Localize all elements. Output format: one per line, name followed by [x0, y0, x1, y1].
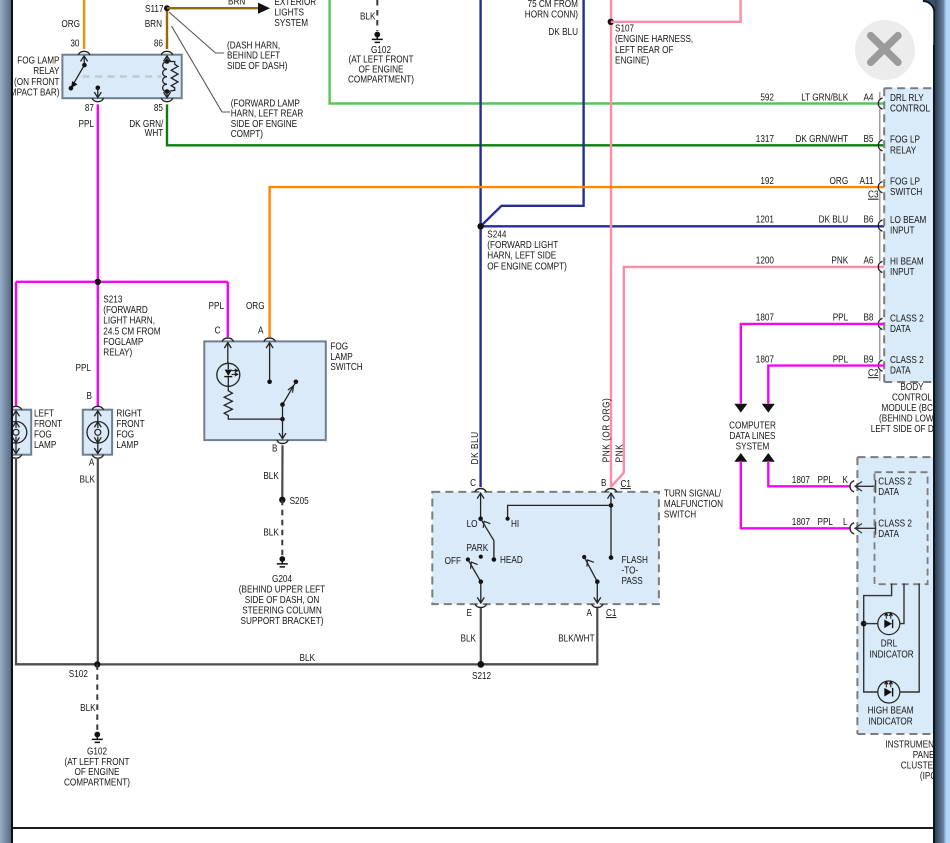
wire DRL indicator return — [900, 584, 904, 624]
pin 87 label — [85, 102, 94, 113]
svg-text:LEFT: LEFT — [34, 408, 54, 419]
wire BRN from S117 to relay pin 86 — [166, 8, 168, 49]
pin B label (right lamp) — [87, 390, 92, 401]
headlamp switch LO contact from pin C — [477, 493, 484, 521]
HI contact branch — [506, 505, 612, 520]
svg-text:DATA: DATA — [878, 528, 899, 539]
node DRL RLY CONTROL — [890, 92, 930, 114]
svg-text:30: 30 — [70, 38, 79, 49]
label FLASH -TO- PASS — [622, 554, 648, 586]
svg-text:FOG: FOG — [34, 429, 52, 440]
svg-text:LO: LO — [467, 518, 478, 529]
svg-text:1201: 1201 — [756, 214, 774, 225]
svg-text:CLASS 2: CLASS 2 — [878, 518, 912, 529]
svg-text:MALFUNCTION: MALFUNCTION — [664, 498, 723, 509]
node HI BEAM INPUT — [890, 256, 924, 278]
svg-text:LT GRN/BLK: LT GRN/BLK — [801, 92, 848, 103]
svg-text:BLK: BLK — [461, 633, 476, 644]
wire BLK pin E to S212 — [480, 608, 482, 664]
label DK BLU — [548, 26, 578, 37]
svg-text:B6: B6 — [863, 214, 873, 225]
label (FORWARD LAMP HARN, LEFT REAR SIDE OF ENGINE COMPT) — [231, 98, 304, 140]
svg-text:S213: S213 — [103, 294, 122, 305]
label OFF — [445, 555, 462, 566]
svg-text:1807: 1807 — [756, 312, 774, 323]
svg-text:S205: S205 — [290, 495, 309, 506]
svg-text:OFF: OFF — [445, 555, 462, 566]
svg-text:ORG: ORG — [830, 175, 849, 186]
relay coil between pins 86 and 85 — [163, 56, 178, 98]
svg-text:SUPPORT BRACKET): SUPPORT BRACKET) — [241, 615, 324, 626]
svg-text:DATA: DATA — [878, 486, 899, 497]
headlamp switch blade OFF to pin E — [468, 560, 484, 604]
splice S107 — [608, 19, 614, 25]
svg-text:RIGHT: RIGHT — [116, 408, 142, 419]
svg-text:PNK: PNK — [614, 444, 625, 463]
svg-text:B: B — [601, 477, 606, 488]
BCM pin B6 arc — [878, 220, 882, 231]
label BLK/WHT — [558, 633, 595, 644]
pin C label — [470, 477, 476, 488]
svg-text:COMPARTMENT): COMPARTMENT) — [348, 74, 414, 85]
wire DK BLU vertical 1 (to S244 and turn signal switch) — [479, 0, 481, 487]
fog lamp switch blade — [279, 380, 298, 439]
contact OFF — [466, 557, 470, 561]
label PPL — [79, 118, 94, 129]
label BLK — [360, 11, 375, 22]
svg-text:(FORWARD: (FORWARD — [103, 304, 148, 315]
body control module BCM box — [884, 88, 950, 382]
svg-text:HORN CONN): HORN CONN) — [525, 9, 578, 20]
svg-text:RELAY: RELAY — [33, 65, 59, 76]
label 592 LT GRN/BLK A4 — [760, 92, 873, 103]
wire PPL class 2 data to IPC L — [734, 453, 849, 528]
BCM pin A4 arc — [878, 98, 882, 109]
label BLK (ground bus) — [299, 652, 314, 663]
node FOG LP SWITCH — [890, 176, 922, 198]
label 192 ORG A11 — [760, 175, 873, 186]
ground G204 — [277, 556, 288, 567]
svg-text:LIGHTS: LIGHTS — [274, 7, 304, 18]
label LO — [467, 518, 478, 529]
svg-text:PASS: PASS — [622, 575, 643, 586]
label BLK — [461, 633, 476, 644]
wire BLK switch to S205 — [281, 445, 283, 500]
turn signal / malfunction switch S2 box — [432, 489, 659, 608]
svg-text:SIDE OF DASH, ON: SIDE OF DASH, ON — [245, 594, 320, 605]
svg-text:(DASH HARN,: (DASH HARN, — [227, 40, 280, 51]
splice S102 — [69, 661, 101, 679]
svg-text:INDICATOR: INDICATOR — [868, 716, 913, 727]
svg-text:FOG LP: FOG LP — [890, 176, 920, 187]
left front fog lamp E1 — [1, 406, 31, 458]
label BLK — [263, 470, 278, 481]
label PNK rotated — [614, 444, 625, 463]
label DK GRN/ WHT — [129, 118, 164, 138]
fog lamp switch S1 box — [204, 338, 325, 444]
connector arc pin 87 — [92, 98, 103, 102]
svg-text:SIDE OF DASH): SIDE OF DASH) — [227, 60, 287, 71]
svg-text:SYSTEM: SYSTEM — [274, 17, 308, 28]
svg-text:PPL: PPL — [818, 474, 833, 485]
svg-text:HEAD: HEAD — [500, 554, 523, 565]
node CLASS 2 DATA — [890, 313, 924, 335]
svg-text:CONTROL: CONTROL — [892, 392, 932, 403]
label G102 (AT LEFT FRONT OF ENGINE COMPARTMENT) — [64, 746, 130, 788]
wire BRN to exterior lights system — [167, 0, 270, 14]
svg-text:FRONT: FRONT — [116, 418, 145, 429]
svg-text:BLK/WHT: BLK/WHT — [558, 633, 595, 644]
fog lamp switch LED indicator — [217, 342, 240, 386]
BCM connector bracket line — [879, 92, 881, 381]
svg-text:BLK: BLK — [80, 702, 95, 713]
splice S213 — [95, 279, 101, 285]
svg-text:PPL: PPL — [833, 354, 848, 365]
wire IPC internal to DRL indicator — [861, 584, 892, 693]
svg-text:PPL: PPL — [76, 362, 91, 373]
label 1807 PPL K — [792, 474, 848, 485]
connector arc pin 86 — [161, 51, 172, 55]
svg-text:B9: B9 — [863, 354, 873, 365]
svg-text:(FORWARD LAMP: (FORWARD LAMP — [231, 98, 300, 109]
svg-text:BEHIND LEFT: BEHIND LEFT — [227, 50, 281, 61]
wire PPL splice bus at S213 — [16, 281, 228, 283]
label CLASS 2 DATA (K) — [878, 476, 912, 498]
svg-text:FOG: FOG — [116, 429, 134, 440]
svg-text:INPUT: INPUT — [890, 225, 915, 236]
relay mechanical link (dashed) — [83, 75, 162, 77]
pin 86 label — [154, 38, 163, 49]
relay K1 FOG LAMP RELAY box — [62, 55, 181, 98]
label FOG LAMP SWITCH — [330, 341, 362, 373]
svg-text:BRN: BRN — [228, 0, 245, 7]
label ORG — [61, 18, 80, 29]
svg-text:K: K — [843, 474, 848, 485]
svg-text:G204: G204 — [272, 573, 292, 584]
svg-text:24.5 CM FROM: 24.5 CM FROM — [103, 326, 160, 337]
svg-text:(BEHIND UPPER LEFT: (BEHIND UPPER LEFT — [239, 584, 326, 595]
splice S212 — [472, 661, 491, 681]
svg-text:SWITCH: SWITCH — [890, 186, 922, 197]
BCM pin B8 arc — [878, 318, 882, 329]
node COMPUTER DATA LINES SYSTEM — [729, 420, 776, 452]
svg-text:C1: C1 — [621, 478, 631, 489]
contact PARK — [479, 555, 483, 559]
pin A label — [587, 607, 593, 618]
svg-text:LAMP: LAMP — [34, 439, 56, 450]
callout line dash harn — [169, 12, 224, 53]
label 1807 PPL B8 — [756, 312, 874, 323]
pin 85 label — [154, 102, 163, 113]
svg-text:DK GRN/WHT: DK GRN/WHT — [795, 133, 848, 144]
svg-text:BLK: BLK — [299, 652, 314, 663]
ground G102 (top) — [372, 32, 383, 43]
pin 30 label — [70, 38, 79, 49]
label PNK (OR ORG) rotated — [601, 398, 612, 463]
svg-text:RELAY): RELAY) — [103, 347, 132, 358]
svg-text:PPL: PPL — [833, 312, 848, 323]
label (ENGINE HARN, 75 CM FROM HORN CONN) — [525, 0, 578, 20]
svg-text:LAMP: LAMP — [330, 351, 352, 362]
label DRL INDICATOR — [869, 638, 914, 660]
svg-text:B: B — [272, 443, 277, 454]
label 1200 PNK A6 — [756, 255, 874, 266]
svg-text:A6: A6 — [863, 255, 873, 266]
svg-text:PNK (OR ORG): PNK (OR ORG) — [601, 398, 612, 463]
svg-text:C: C — [470, 477, 476, 488]
node CLASS 2 DATA serial link box — [875, 472, 928, 584]
label BODY CONTROL MODULE (BCM) (BEHIND LOWER LEFT SIDE OF DASH) — [871, 381, 950, 434]
svg-text:PARK: PARK — [466, 542, 488, 553]
svg-text:LEFT REAR OF: LEFT REAR OF — [615, 44, 674, 55]
svg-text:592: 592 — [760, 92, 774, 103]
svg-text:A: A — [587, 607, 593, 618]
svg-text:87: 87 — [85, 102, 94, 113]
svg-text:E: E — [467, 607, 472, 618]
svg-text:L: L — [843, 516, 848, 527]
svg-text:LIGHT HARN,: LIGHT HARN, — [103, 315, 155, 326]
svg-text:DK BLU: DK BLU — [469, 431, 480, 464]
wire ORG to relay pin 30 — [83, 0, 85, 49]
svg-text:COMPUTER: COMPUTER — [729, 420, 776, 431]
label HIGH BEAM INDICATOR — [868, 705, 914, 727]
svg-text:PPL: PPL — [79, 118, 94, 129]
wire ORG from BCM A11 to fog lamp switch pin A — [270, 187, 884, 337]
svg-text:SIDE OF ENGINE: SIDE OF ENGINE — [231, 118, 297, 129]
pin A label (right lamp) — [89, 457, 95, 468]
ground G102 (bottom) — [92, 732, 103, 743]
svg-text:COMPARTMENT): COMPARTMENT) — [64, 777, 130, 788]
label 1807 PPL B9 — [756, 354, 874, 365]
svg-text:PPL: PPL — [818, 516, 833, 527]
wire BLK right lamp to S102 — [97, 458, 99, 665]
svg-text:DRL RLY: DRL RLY — [890, 92, 924, 103]
svg-text:HIGH BEAM: HIGH BEAM — [868, 705, 914, 716]
svg-text:FOGLAMP: FOGLAMP — [103, 336, 143, 347]
svg-text:BLK: BLK — [80, 474, 95, 485]
label G102 (AT LEFT FRONT OF ENGINE COMPARTMENT) — [348, 44, 414, 85]
svg-text:BRN: BRN — [145, 18, 162, 29]
svg-text:A: A — [258, 325, 264, 336]
wire BLK left lamp to S102 — [16, 458, 97, 665]
label BRN (vertical wire) — [145, 18, 162, 29]
label HEAD — [500, 554, 523, 565]
pin B label (switch) — [272, 443, 277, 454]
node EXTERIOR LIGHTS SYSTEM — [274, 0, 316, 28]
svg-text:FRONT: FRONT — [34, 418, 63, 429]
svg-text:STEERING COLUMN: STEERING COLUMN — [242, 605, 322, 616]
svg-text:TURN SIGNAL/: TURN SIGNAL/ — [664, 488, 722, 499]
BCM pin A11 arc — [878, 182, 882, 193]
splice S205 — [279, 495, 309, 506]
label BLK — [80, 702, 95, 713]
connector C1 label (bottom) — [606, 607, 616, 618]
label DK BLU (rotated, on wire to switch) — [469, 431, 480, 464]
svg-text:DRL: DRL — [881, 638, 897, 649]
svg-text:B8: B8 — [863, 312, 873, 323]
svg-text:CLASS 2: CLASS 2 — [878, 476, 912, 487]
flash-to-pass contact — [582, 555, 586, 559]
svg-text:DK BLU: DK BLU — [819, 214, 849, 225]
svg-text:B5: B5 — [863, 133, 873, 144]
svg-text:HI BEAM: HI BEAM — [890, 256, 924, 267]
label 1201 DK BLU B6 — [756, 214, 874, 225]
svg-text:S117: S117 — [145, 3, 164, 14]
wire BLK dashed to ground G102 (top) — [376, 0, 378, 31]
svg-text:BLK: BLK — [263, 527, 278, 538]
svg-text:ORG: ORG — [246, 300, 265, 311]
svg-text:-TO-: -TO- — [622, 565, 639, 576]
label BLK — [263, 527, 278, 538]
label ORG (switch drop) — [246, 300, 265, 311]
svg-text:(ENGINE HARNESS,: (ENGINE HARNESS, — [615, 33, 693, 44]
svg-text:S244: S244 — [487, 229, 506, 240]
label FOG LAMP RELAY (ON FRONT IMPACT BAR) — [8, 55, 60, 98]
svg-text:FOG LP: FOG LP — [890, 134, 920, 145]
svg-text:(ON FRONT: (ON FRONT — [14, 76, 60, 87]
svg-text:BLK: BLK — [263, 470, 278, 481]
wire DK GRN/WHT from relay pin 85 to BCM — [167, 104, 884, 145]
svg-text:HI: HI — [511, 518, 519, 529]
svg-text:1807: 1807 — [792, 474, 810, 485]
relay switch contact from pin 30 — [81, 56, 88, 68]
svg-text:HARN, LEFT REAR: HARN, LEFT REAR — [231, 108, 304, 119]
svg-text:C: C — [215, 325, 221, 336]
wire PNK HI BEAM from BCM A6 — [611, 267, 884, 487]
wire BLK/WHT pin A to ground bus — [481, 608, 598, 664]
splice S244 — [477, 223, 483, 229]
svg-text:192: 192 — [760, 175, 774, 186]
svg-text:OF ENGINE COMPT): OF ENGINE COMPT) — [487, 261, 567, 272]
svg-text:INDICATOR: INDICATOR — [869, 649, 914, 660]
svg-text:S212: S212 — [472, 670, 491, 681]
wire PPL to right fog lamp — [97, 282, 99, 406]
svg-text:85: 85 — [154, 102, 163, 113]
connector arc pin 30 — [78, 51, 89, 55]
BCM pin B9 arc — [878, 360, 882, 371]
label S107 (ENGINE HARNESS, LEFT REAR OF ENGINE) — [615, 23, 693, 66]
wire PPL class 2 data to IPC K — [762, 453, 850, 486]
svg-text:IMPACT BAR): IMPACT BAR) — [8, 87, 60, 98]
wire PPL from relay pin 87 to S213 — [97, 104, 99, 281]
flash-to-pass feed from pin B — [608, 493, 615, 560]
label S213 (FORWARD LIGHT HARN, 24.5 CM FROM FOGLAMP RELAY) — [103, 294, 160, 358]
svg-text:PNK: PNK — [831, 255, 848, 266]
wire LT GRN/BLK to BCM A4 — [330, 0, 884, 104]
pin C label (switch) — [215, 325, 221, 336]
splice S117 — [145, 3, 170, 14]
fog lamp switch resistor — [224, 386, 282, 419]
pin L connector — [850, 522, 876, 535]
label INSTRUMENT PANEL CLUSTER (IPC) — [885, 739, 939, 781]
svg-text:DK BLU: DK BLU — [548, 26, 578, 37]
svg-text:C1: C1 — [606, 607, 616, 618]
svg-text:CONTROL: CONTROL — [890, 103, 930, 114]
BCM pin B5 arc — [878, 140, 882, 151]
svg-text:FOG LAMP: FOG LAMP — [17, 55, 59, 66]
connector C1 label (top) — [621, 478, 631, 489]
wire BLK dashed S205 to G204 — [281, 500, 283, 556]
wire PNK from S107 down to turn signal switch — [610, 0, 612, 487]
svg-text:SWITCH: SWITCH — [330, 361, 362, 372]
connector C2 label — [868, 367, 878, 378]
wire DK BLU horizontal S244 to BCM B6 — [481, 225, 884, 227]
wire BLK dashed S102 to G102 — [96, 664, 98, 731]
node CLASS 2 DATA — [890, 354, 924, 376]
wire PPL to left fog lamp — [15, 282, 17, 406]
label PARK — [466, 542, 488, 553]
label 1317 DK GRN/WHT B5 — [756, 133, 874, 144]
svg-text:ENGINE): ENGINE) — [615, 55, 649, 66]
pin A label (switch) — [258, 325, 264, 336]
label PPL (right lamp drop) — [76, 362, 91, 373]
svg-text:LAMP: LAMP — [116, 439, 138, 450]
svg-text:PPL: PPL — [209, 300, 224, 311]
svg-text:1807: 1807 — [792, 516, 810, 527]
svg-text:HARN, LEFT SIDE: HARN, LEFT SIDE — [487, 250, 556, 261]
flash-to-pass blade to pin A — [584, 557, 601, 603]
pin E label — [467, 607, 472, 618]
label 1807 PPL L — [792, 516, 848, 527]
svg-text:ORG: ORG — [61, 18, 80, 29]
label (DASH HARN, BEHIND LEFT SIDE OF DASH) — [227, 40, 287, 72]
label BLK (right lamp ground) — [80, 474, 95, 485]
svg-text:FLASH: FLASH — [622, 554, 648, 565]
relay pin 87 stub — [94, 86, 101, 98]
svg-text:DATA: DATA — [890, 323, 911, 334]
node LO BEAM INPUT — [890, 214, 926, 236]
svg-text:1317: 1317 — [756, 133, 774, 144]
pin B label — [601, 477, 606, 488]
HIGH BEAM indicator LED — [878, 681, 900, 703]
svg-text:COMPT): COMPT) — [231, 128, 263, 139]
wire BLK main ground bus — [16, 663, 597, 665]
svg-text:S107: S107 — [615, 23, 634, 34]
svg-text:FOG: FOG — [330, 341, 348, 352]
fog lamp switch contact from pin A — [266, 342, 273, 384]
svg-text:86: 86 — [154, 38, 163, 49]
svg-text:LO BEAM: LO BEAM — [890, 214, 926, 225]
svg-text:DATA: DATA — [890, 365, 911, 376]
label HI — [511, 518, 519, 529]
svg-text:(FORWARD LIGHT: (FORWARD LIGHT — [487, 239, 558, 250]
svg-text:CLASS 2: CLASS 2 — [890, 313, 924, 324]
label TURN SIGNAL/ MALFUNCTION SWITCH — [664, 488, 723, 520]
svg-text:SWITCH: SWITCH — [664, 509, 696, 520]
label RIGHT FRONT FOG LAMP — [116, 408, 145, 450]
label CLASS 2 DATA (L) — [878, 518, 912, 540]
label G204 (BEHIND UPPER LEFT SIDE OF DASH, ON STEERING COLUMN SUPPORT BRACKET) — [239, 573, 326, 626]
svg-text:A11: A11 — [860, 175, 874, 186]
svg-text:SYSTEM: SYSTEM — [736, 441, 770, 452]
svg-text:C3: C3 — [868, 189, 878, 200]
svg-text:BODY: BODY — [900, 381, 923, 392]
wire PNK S107 branch up right — [611, 0, 741, 22]
svg-text:A4: A4 — [863, 92, 873, 103]
pin K connector — [850, 480, 876, 493]
wire PPL to fog lamp switch pin C — [227, 282, 229, 337]
relay switch blade — [69, 65, 85, 90]
svg-text:S102: S102 — [69, 668, 88, 679]
svg-text:DATA LINES: DATA LINES — [729, 430, 775, 441]
wire PPL class 2 data from BCM B8 — [734, 324, 884, 413]
connector arc pin 85 — [161, 98, 172, 102]
BCM pin A6 arc — [878, 261, 882, 272]
wire PPL class 2 data from BCM B9 — [762, 366, 884, 413]
svg-text:WHT: WHT — [145, 127, 164, 138]
instrument panel cluster IPC box — [857, 457, 950, 734]
svg-text:1200: 1200 — [756, 255, 774, 266]
